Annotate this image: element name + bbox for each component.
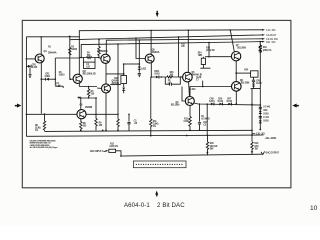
node right column dot xyxy=(259,104,261,106)
svg-text:(24K) 1%: (24K) 1% xyxy=(263,49,272,52)
node stack labels xyxy=(263,106,271,123)
node R6 top dot xyxy=(44,113,46,115)
node R16 left dot xyxy=(161,76,163,78)
page number 10 xyxy=(310,205,318,212)
node C5 junction xyxy=(138,63,140,65)
wire top rail 4 xyxy=(81,42,263,58)
svg-text:(+2C): (+2C) xyxy=(141,68,146,70)
node R9 dot xyxy=(95,114,97,116)
node Q1 emitter junction xyxy=(41,78,43,80)
svg-text:C10 300: C10 300 xyxy=(266,29,276,32)
wire R17 vertical xyxy=(206,104,208,135)
svg-text:S-510: S-510 xyxy=(263,121,269,123)
node rail1 arrow xyxy=(262,29,265,31)
node R22 top dot xyxy=(251,134,253,136)
node R10 feed dot xyxy=(123,73,125,75)
registration mark right xyxy=(292,104,299,108)
svg-text:1%: 1% xyxy=(35,130,38,132)
node dac output arrow xyxy=(261,151,280,154)
transistor Q2 xyxy=(73,74,82,83)
svg-text:S-510: S-510 xyxy=(218,101,224,103)
node h2 right dot xyxy=(95,97,97,99)
resistor R22 xyxy=(251,142,253,155)
capacitor C9a xyxy=(259,44,262,52)
svg-text:TMK: TMK xyxy=(198,55,203,57)
wire R14 feed xyxy=(205,43,231,57)
node R13 rail dot xyxy=(189,129,191,131)
resistor R11 xyxy=(150,77,152,136)
transistor Q7 xyxy=(231,52,240,61)
svg-text:ALL RE IS 500 ARE 1500,(1/8),: ALL RE IS 500 ARE 1500,(1/8), 10ppm xyxy=(30,146,58,149)
node R7 rail dot xyxy=(117,130,119,132)
diode CR1 xyxy=(26,65,38,69)
resistor R4 xyxy=(81,57,98,59)
wire Q2 emitter xyxy=(78,83,80,86)
wire R3 bottom link xyxy=(55,86,63,88)
node Q4 emitter rail dot xyxy=(105,130,107,132)
wire Q6B emitter xyxy=(188,82,191,97)
node box feed dot xyxy=(178,36,180,38)
transistor Q9 xyxy=(185,97,194,106)
diode CR8 xyxy=(251,81,263,89)
svg-text:SEL2009: SEL2009 xyxy=(237,47,246,49)
wire Q6 collector xyxy=(80,97,82,110)
node x252 row dot xyxy=(251,104,253,106)
diode CR5 xyxy=(209,98,215,105)
svg-text:A604-0-1 2 Bit DAC: A604-0-1 2 Bit DAC xyxy=(124,202,185,209)
resistor R5 xyxy=(87,87,89,99)
svg-text:R21 500: R21 500 xyxy=(266,41,276,44)
resistor R14 xyxy=(198,52,211,69)
wire Q5 collector xyxy=(150,30,152,54)
wire Q3 collector xyxy=(105,40,107,54)
transistor Q5 xyxy=(145,54,154,63)
transistor Q6 lower xyxy=(77,110,86,119)
capacitor C3 xyxy=(127,114,137,130)
wire R3 left vertical xyxy=(54,58,56,86)
title A604-0-1 2 Bit DAC xyxy=(124,202,185,209)
svg-text:2N404A: 2N404A xyxy=(48,52,57,55)
resistor R9 xyxy=(95,114,97,130)
diode CR3 xyxy=(138,64,147,73)
wire Q6 base xyxy=(26,113,77,115)
wire Q9 down xyxy=(189,106,191,117)
node h2 dot xyxy=(88,97,90,99)
diode CR7 xyxy=(227,98,233,105)
capacitor C13 xyxy=(259,116,262,118)
wire Q9 emitter to diode row xyxy=(194,103,260,105)
svg-text:1%: 1% xyxy=(153,126,156,128)
node R4 right dot xyxy=(98,57,100,59)
node Q8 base row dot xyxy=(202,86,204,88)
node C5 rail dot xyxy=(139,39,141,41)
wire Q2 collector to R4 xyxy=(79,57,81,59)
wire R10 feed xyxy=(106,73,124,75)
svg-text:SEL2009 JD: SEL2009 JD xyxy=(83,72,96,75)
transistor Q3 xyxy=(101,54,110,63)
wire h1 xyxy=(79,86,97,88)
wire lower rail 1 xyxy=(45,130,252,131)
wire Q4 base xyxy=(97,87,102,89)
notes text block xyxy=(30,139,58,149)
wire Q5 emitter xyxy=(151,63,155,77)
wire Q4 emitter xyxy=(105,93,107,130)
node R3 junction a xyxy=(55,78,57,80)
wire Q9 base feed xyxy=(182,87,185,102)
node R20 top dot xyxy=(207,135,209,137)
svg-text:DAC OUTPUT: DAC OUTPUT xyxy=(266,152,280,155)
node R10 top junction xyxy=(123,63,125,65)
node Q6B collector dot xyxy=(188,29,190,31)
wire R10 top xyxy=(123,64,125,76)
wire R3 top link xyxy=(55,57,79,59)
node R7 mid dot xyxy=(117,114,119,116)
svg-text:+10 WFD: +10 WFD xyxy=(201,119,210,121)
wire top rail 3 xyxy=(106,39,263,40)
svg-text:S-510: S-510 xyxy=(263,114,269,116)
svg-text:R-215: R-215 xyxy=(256,83,262,85)
node R4 left dot xyxy=(80,57,82,59)
resistor R10 xyxy=(114,76,126,84)
node Q5 base rail dot xyxy=(135,37,137,39)
node Q6 base rail dot xyxy=(26,114,28,116)
wire mid to R24 xyxy=(236,72,250,74)
wire vertical x252 xyxy=(251,89,253,142)
node rail4 arrow xyxy=(262,41,265,43)
resistor R8 xyxy=(80,122,82,131)
transistor Q4 xyxy=(102,84,111,93)
wire lower rail 2 xyxy=(26,135,263,136)
svg-text:2N404A: 2N404A xyxy=(152,51,160,54)
svg-text:3-300 1%: 3-300 1% xyxy=(109,146,118,148)
node Q2 collector junction xyxy=(69,36,71,38)
diode CR9 xyxy=(259,111,262,114)
border frame xyxy=(22,20,291,187)
diode CR4 xyxy=(122,88,125,94)
node rail2 arrow xyxy=(262,34,265,36)
svg-text:C10 - 301: C10 - 301 xyxy=(256,134,266,136)
wire R10 to node xyxy=(124,63,140,65)
resistor R7 xyxy=(117,44,119,131)
wire Q6B base xyxy=(180,76,182,78)
svg-text:6-684: 6-684 xyxy=(45,75,51,78)
wire Q8 base row xyxy=(190,87,231,97)
wire Q3 base xyxy=(98,57,101,60)
node R11 rail dot xyxy=(150,135,152,137)
wire Q6 collector top xyxy=(78,96,81,98)
wire R12 out xyxy=(116,151,121,156)
registration mark left xyxy=(15,104,21,108)
resistor R13 xyxy=(189,117,192,131)
capacitor C4 xyxy=(165,77,180,86)
svg-text:2 C-441: 2 C-441 xyxy=(263,106,271,109)
diode CR2 xyxy=(41,73,55,80)
wire box feed vertical xyxy=(178,37,180,77)
wire dac output rail xyxy=(121,154,262,156)
wire R19 top xyxy=(259,42,261,53)
node Q1 base dot xyxy=(26,58,28,60)
resistor R19 xyxy=(259,45,261,53)
wire Q2 base xyxy=(70,78,73,80)
node Q7 Q8 mid dot xyxy=(235,72,237,74)
wire left vertical xyxy=(25,37,27,137)
wire top rail 1 xyxy=(26,30,263,37)
node Q7 collector dot xyxy=(229,29,231,31)
wire Q6 right link xyxy=(86,113,118,115)
svg-text:51810: 51810 xyxy=(71,49,77,51)
wire Q8 base stub xyxy=(202,81,204,87)
svg-text:C-240: C-240 xyxy=(190,88,196,91)
connector dashed box xyxy=(133,161,186,168)
wire C5 vertical top xyxy=(138,40,140,64)
wire Q6 emitter xyxy=(80,119,82,122)
node R4B top dot xyxy=(98,39,100,41)
svg-text:SEL2009: SEL2009 xyxy=(241,83,250,85)
wire Q6B collector xyxy=(187,30,189,72)
resistor R16 xyxy=(161,76,182,78)
resistor R6 xyxy=(43,114,45,131)
resistor R24 xyxy=(244,68,258,77)
node C6 top dot xyxy=(199,103,201,105)
node R7 top dot xyxy=(117,43,119,45)
svg-text:DAC INPUT b: DAC INPUT b xyxy=(90,150,104,153)
node rail junction dots xyxy=(40,36,200,157)
wire R10 bottom xyxy=(123,84,125,88)
wire Q4 collector stub xyxy=(110,84,121,86)
wire Q1 emitter xyxy=(40,63,42,114)
svg-text:S-510: S-510 xyxy=(32,67,38,69)
node Q8 emitter dot xyxy=(235,103,237,105)
registration mark bottom xyxy=(155,191,158,197)
svg-text:C-441: C-441 xyxy=(263,116,269,119)
resistor R4B xyxy=(98,39,100,57)
svg-text:+OE +10 MF: +OE +10 MF xyxy=(265,138,277,140)
resistor R12 xyxy=(109,143,118,152)
node R8 rail dot xyxy=(80,130,82,132)
node Q5 emitter dot xyxy=(151,76,153,78)
svg-text:3-300: 3-300 xyxy=(183,121,189,123)
registration mark top xyxy=(156,11,159,17)
transistor Q1 xyxy=(35,54,44,63)
wire h2 xyxy=(78,97,97,99)
node rail3 arrow xyxy=(262,38,265,40)
wire h2 drop xyxy=(95,98,97,114)
node column bottom dot xyxy=(259,129,261,131)
capacitor C6 xyxy=(198,104,210,130)
resistor R2 xyxy=(69,48,71,56)
node C10 stub label xyxy=(252,133,255,135)
wire Q7 collector xyxy=(230,30,234,52)
wire CR1 down xyxy=(28,68,31,78)
svg-text:SEL2009: SEL2009 xyxy=(171,105,180,107)
svg-text:S-510: S-510 xyxy=(209,101,215,103)
wire Q2 collector xyxy=(78,37,80,75)
wire top rail 2 xyxy=(70,35,264,40)
node R17 top dot xyxy=(206,103,208,105)
node R16 right dot xyxy=(180,76,182,78)
capacitor C12 xyxy=(259,107,262,109)
node rail2 dots xyxy=(186,135,188,137)
svg-text:(24K) 1W: (24K) 1W xyxy=(206,49,216,52)
wire Q8 emitter xyxy=(235,91,237,104)
svg-text:2N3009: 2N3009 xyxy=(85,107,93,109)
wire R3 right vertical xyxy=(69,36,71,79)
diode CR6 xyxy=(218,98,224,105)
node R19 top dot xyxy=(259,41,261,43)
wire Q1 base xyxy=(26,58,35,60)
resistor R3 label xyxy=(56,72,65,88)
wire Q7 to Q8 xyxy=(235,61,237,82)
transistor Q8 xyxy=(232,82,242,92)
node x252 rail1 dot xyxy=(251,130,253,132)
svg-text:51810: 51810 xyxy=(59,75,65,77)
wire right column xyxy=(259,52,261,129)
svg-text:10: 10 xyxy=(310,205,318,212)
svg-text:S-510: S-510 xyxy=(227,101,233,103)
svg-text:C4+BU47: C4+BU47 xyxy=(266,34,277,37)
diode CR11 xyxy=(154,71,161,78)
node R3 junction b xyxy=(69,36,71,38)
node Q2 base dot xyxy=(69,78,71,80)
diode CR10 xyxy=(259,120,262,123)
wire Q1 collector xyxy=(40,37,42,55)
transistor Q6B xyxy=(183,72,193,82)
resistor R20 xyxy=(206,136,208,156)
node DAC INPUT xyxy=(90,150,108,153)
node h1 dot xyxy=(88,86,90,88)
capacitor C5 xyxy=(138,73,141,77)
svg-text:S-510: S-510 xyxy=(154,74,160,76)
capacitor C2 xyxy=(84,58,96,69)
node Q5 collector dot xyxy=(150,30,152,32)
wire Q3 to Q4 xyxy=(105,63,107,84)
wire Q5 base feed xyxy=(136,38,145,58)
node R14 feed dot xyxy=(208,56,210,58)
capacitor C8 xyxy=(252,77,255,83)
